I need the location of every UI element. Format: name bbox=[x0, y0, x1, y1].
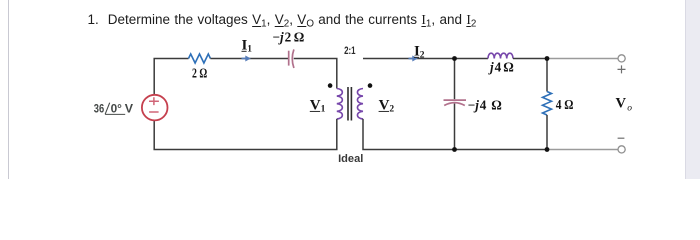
capacitor C2 = -j4 ohm branch wire upper bbox=[454, 59, 456, 100]
minus sign at output bbox=[618, 137, 625, 139]
transformer T1 primary winding (left coil) bbox=[337, 89, 343, 119]
wire: transformer primary bottom to bottom rail, bottom rail back to source bbox=[154, 119, 337, 150]
svg-text:−: − bbox=[272, 30, 280, 45]
wire: secondary bottom loop bbox=[363, 119, 547, 150]
svg-text:36: 36 bbox=[94, 101, 104, 115]
svg-text:1: 1 bbox=[321, 105, 326, 115]
svg-text:4: 4 bbox=[480, 97, 487, 112]
wire: top rail, source loop left segment (source node to resistor) bbox=[154, 59, 188, 96]
minus sign inside source bbox=[149, 111, 159, 113]
wire: node B to output terminal top (grey) bbox=[547, 58, 618, 60]
wire: resistor to capacitor C1 bbox=[210, 58, 288, 60]
current arrow I1 bbox=[242, 58, 247, 60]
svg-text:4: 4 bbox=[495, 59, 502, 74]
wire: node B2 to output terminal bottom (grey) bbox=[547, 149, 618, 151]
resistor R2 zigzag bbox=[543, 92, 552, 116]
svg-text:Ω: Ω bbox=[294, 30, 305, 45]
svg-text:o: o bbox=[627, 103, 632, 113]
plus sign at output bbox=[618, 65, 626, 73]
svg-text:Ω: Ω bbox=[503, 59, 514, 74]
svg-text:0°: 0° bbox=[111, 101, 122, 115]
resistor R2 branch wire lower bbox=[546, 115, 548, 150]
capacitor C2 top plate bbox=[444, 99, 467, 101]
svg-text:2 Ω: 2 Ω bbox=[192, 65, 207, 80]
output terminal bottom circle bbox=[618, 146, 625, 153]
svg-text:Ideal: Ideal bbox=[338, 153, 363, 165]
polarity dot secondary bbox=[368, 83, 373, 88]
right page band bbox=[685, 0, 700, 179]
node A junction dot bbox=[452, 56, 457, 61]
node B junction dot bbox=[545, 56, 550, 61]
current arrow I2 bbox=[409, 58, 414, 60]
capacitor C1 right curved plate bbox=[292, 49, 294, 68]
capacitor C2 bottom curved plate bbox=[444, 103, 465, 106]
svg-text:2: 2 bbox=[389, 105, 394, 115]
inductor L1 = j4 ohm bbox=[488, 53, 513, 58]
transformer T1 secondary winding (right coil) bbox=[357, 89, 363, 119]
polarity dot primary bbox=[328, 83, 333, 88]
svg-text:V: V bbox=[125, 101, 134, 115]
capacitor C2 branch wire lower bbox=[454, 104, 456, 150]
node A2 junction dot (bottom) bbox=[452, 147, 457, 152]
svg-text:j: j bbox=[488, 59, 494, 74]
problem title text bbox=[88, 12, 477, 32]
output terminal top circle bbox=[618, 55, 625, 62]
resistor R2 = 4 ohm branch wire upper bbox=[546, 59, 548, 92]
wire: node A to inductor L1 bbox=[455, 58, 489, 60]
angle symbol underline bbox=[105, 113, 125, 115]
angle symbol slash bbox=[105, 103, 110, 115]
node B2 junction dot (bottom) bbox=[545, 147, 550, 152]
svg-text:V: V bbox=[616, 96, 627, 112]
resistor R=2ohm zigzag bbox=[189, 54, 211, 63]
capacitor C1 = -j2 ohm: left plate bbox=[288, 51, 290, 66]
plus sign inside source bbox=[149, 97, 159, 105]
wire: transformer secondary top to node A bbox=[363, 58, 455, 60]
wire: capacitor to transformer primary top bbox=[294, 59, 337, 89]
svg-text:1: 1 bbox=[247, 45, 252, 55]
svg-text:2: 2 bbox=[285, 30, 292, 45]
svg-text:4 Ω: 4 Ω bbox=[556, 97, 574, 112]
svg-text:Ω: Ω bbox=[491, 97, 502, 112]
svg-text:2: 2 bbox=[420, 51, 425, 61]
svg-text:−: − bbox=[468, 97, 476, 112]
transformer core lines bbox=[348, 87, 351, 121]
wire: inductor to node B bbox=[513, 58, 547, 60]
svg-text:2:1: 2:1 bbox=[344, 45, 355, 57]
left page-edge line bbox=[8, 0, 10, 179]
voltage source VS circle bbox=[142, 95, 168, 121]
